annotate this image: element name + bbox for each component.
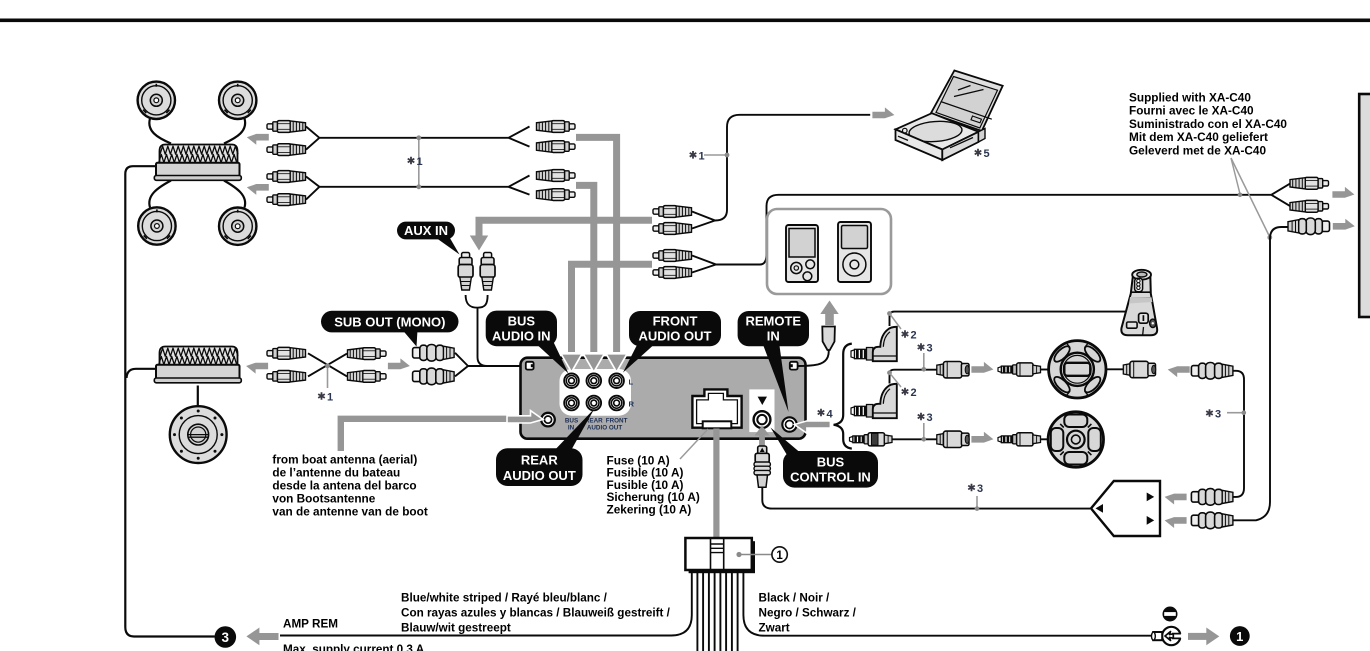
*3 tick + label (right vertical) — [1227, 412, 1243, 414]
svg-text:Black / Noir /: Black / Noir / — [759, 592, 831, 605]
cable arrowheads onto jacks — [561, 354, 582, 372]
gray harness cable from unit to connector — [713, 429, 719, 539]
svg-text:AUDIO IN: AUDIO IN — [492, 328, 551, 343]
screw square left — [526, 362, 534, 370]
wire amp2 to left trunk — [127, 369, 159, 378]
blue/white striped wire text — [401, 592, 671, 635]
cable AUX IN (from upper right pair) — [479, 220, 652, 236]
wire from right-angle plug 1 to pod — [890, 312, 1129, 326]
svg-text:Suministrado con el XA-C40: Suministrado con el XA-C40 — [1129, 117, 1287, 131]
fuse slot — [703, 421, 732, 428]
AUX plug wires converging to unit — [466, 295, 520, 366]
svg-text:IN: IN — [767, 329, 780, 344]
speaker rear-right — [219, 208, 256, 245]
label BUS AUDIO IN — [486, 311, 557, 347]
tail FRONT AUDIO OUT — [623, 341, 658, 373]
gray arrow into amp1 (upper) — [247, 134, 269, 145]
RCA plug pair right ends (pointing right) lower — [537, 170, 576, 182]
svg-text:3: 3 — [927, 343, 933, 355]
tail AUX IN — [434, 236, 460, 255]
top rule bar — [0, 19, 1370, 23]
gray arrow into amp1 (lower) — [247, 184, 269, 195]
wire speaker BR to amp — [224, 181, 245, 208]
portable DVD player — [896, 71, 1003, 161]
pointer lines from text — [1231, 158, 1240, 194]
right edge of base under lid — [979, 129, 986, 143]
curly brace — [834, 344, 852, 449]
AMP REM arrow + circled 3 — [215, 626, 237, 648]
svg-text:BUS: BUS — [817, 455, 845, 470]
lid — [931, 71, 1003, 132]
svg-text:2: 2 — [911, 387, 917, 399]
svg-text:FRONT: FRONT — [606, 418, 628, 425]
chain1: coupler / arrow / plug / commander — [937, 362, 969, 378]
label REMOTE IN — [738, 311, 809, 346]
ring terminal — [1152, 627, 1183, 645]
svg-text:Zekering (10 A): Zekering (10 A) — [607, 502, 692, 516]
svg-text:4: 4 — [827, 408, 834, 420]
svg-text:von Bootsantenne: von Bootsantenne — [272, 492, 375, 506]
*3 tick + label (chain1) — [923, 353, 925, 368]
cable FRONT AUDIO OUT (from upper cord pair) — [576, 137, 617, 352]
svg-text:3: 3 — [1215, 409, 1221, 421]
pod body — [1121, 270, 1157, 335]
svg-text:REAR: REAR — [521, 452, 558, 467]
chain1 right: wire / coupler / arrow / plug / wire down — [1106, 368, 1123, 370]
fuse text — [607, 454, 700, 517]
rotary commander 1 — [1049, 341, 1106, 398]
svg-text:L: L — [629, 377, 634, 386]
*2 pointer + label (plug2) — [890, 373, 902, 387]
fuse pointer line — [680, 429, 708, 459]
*1 tick on DVD wire — [704, 154, 726, 156]
svg-text:from boat antenna (aerial): from boat antenna (aerial) — [272, 453, 417, 467]
jack BUS IN L — [564, 373, 579, 388]
rotary commander 2 — [1048, 412, 1103, 467]
*4 arrow into remote jack — [806, 421, 830, 428]
svg-text:Mit dem XA-C40 geliefert: Mit dem XA-C40 geliefert — [1129, 130, 1268, 144]
straight mini plug (chain2) — [850, 433, 893, 446]
antenna jack — [541, 413, 555, 427]
speaker rear-left — [138, 207, 175, 244]
*2 pointer + label (plug1) — [890, 314, 902, 330]
svg-text:3: 3 — [977, 483, 983, 495]
svg-text:R: R — [629, 400, 635, 409]
right-angle mini plug 2 — [851, 384, 897, 418]
tail REMOTE IN — [762, 342, 789, 412]
tail BUS AUDIO IN — [533, 341, 569, 374]
svg-text:BUS: BUS — [508, 313, 536, 328]
media box — [767, 209, 891, 294]
SUB OUT plug wires — [455, 353, 520, 377]
boat antenna text — [272, 453, 427, 519]
label AUX IN — [397, 222, 455, 240]
amplifier 1 body — [156, 163, 240, 177]
gray arrow toward sub plugs — [388, 358, 410, 369]
circled 1 pointer — [736, 552, 741, 557]
*3 tick + label (chain2) — [923, 423, 925, 438]
base top — [896, 113, 979, 149]
minus symbol — [1163, 607, 1178, 622]
black wire text — [759, 592, 857, 635]
antenna cable gray with white-outlined arrow — [341, 419, 530, 451]
*1 tick on long cords — [418, 136, 420, 189]
*1 label (sub cord) — [318, 392, 325, 400]
arrows into right box — [1332, 187, 1354, 198]
wire amp1 left down to AMP REM row — [125, 166, 214, 636]
svg-text:FRONT: FRONT — [653, 314, 698, 329]
*1 tick at crossing — [327, 366, 329, 388]
svg-text:de l’antenne du bateau: de l’antenne du bateau — [272, 466, 400, 480]
white box + bus control connector — [749, 389, 774, 432]
gray arrow toward DVD player — [872, 107, 894, 118]
svg-text:1: 1 — [1236, 629, 1243, 644]
AUX IN plugs (vertical, pointing up) — [458, 253, 473, 291]
front speaker cord wires (long, *1) — [306, 127, 530, 150]
svg-text:Zwart: Zwart — [759, 622, 790, 635]
tail SUB OUT — [403, 330, 418, 347]
svg-text:3: 3 — [222, 630, 230, 645]
speaker front-left — [138, 82, 175, 119]
BUS cable wire to splitter — [762, 487, 1090, 508]
media player 1 — [786, 225, 818, 282]
svg-text:Negro / Schwarz /: Negro / Schwarz / — [759, 607, 857, 620]
jack BUS IN R — [564, 396, 579, 411]
cable REAR AUDIO OUT (from lower cord pair) — [576, 185, 594, 352]
svg-text:AUDIO OUT: AUDIO OUT — [587, 425, 622, 432]
base front band — [896, 129, 943, 160]
arrowhead down onto AUX plugs — [470, 236, 488, 251]
big BUS connector top right + wire down — [1228, 227, 1288, 520]
harness socket on unit — [692, 389, 741, 427]
speaker front-right — [219, 82, 256, 119]
label FRONT AUDIO OUT — [629, 311, 721, 346]
gray arrow into amp2 — [246, 363, 268, 374]
wire amp2 to subwoofer — [197, 386, 199, 411]
dock connector wire to unit — [799, 349, 829, 367]
svg-text:5: 5 — [984, 148, 990, 160]
pair of RCA plugs for AUX cable (pointing left) + wires to DVD player — [692, 115, 870, 229]
svg-text:1: 1 — [327, 392, 333, 404]
svg-text:Blue/white striped / Rayé bleu: Blue/white striped / Rayé bleu/blanc / — [401, 592, 608, 605]
pair of RCA plugs for BUS AUDIO cable (pointing left) + wire right — [692, 195, 1271, 273]
svg-text:SUB OUT (MONO): SUB OUT (MONO) — [334, 315, 445, 330]
disc — [908, 120, 962, 144]
svg-text:Supplied with XA-C40: Supplied with XA-C40 — [1129, 91, 1251, 105]
RCA plug pair right ends (pointing right) upper — [537, 121, 576, 133]
remote in jack — [782, 417, 796, 431]
arrow + circled dark 1 — [1188, 633, 1207, 640]
RCA pair split at top right — [1271, 183, 1290, 206]
label BUS CONTROL IN — [783, 451, 878, 488]
svg-text:3: 3 — [927, 412, 933, 424]
amplifier 1 heatsink fins — [160, 144, 238, 163]
*1 label (top cords) — [408, 157, 415, 165]
svg-text:CONTROL IN: CONTROL IN — [790, 470, 871, 485]
harness fan wires — [280, 569, 692, 636]
svg-text:REMOTE: REMOTE — [745, 314, 801, 329]
tail BUS CONTROL IN — [771, 428, 804, 456]
media player 2 (click wheel) — [838, 222, 871, 282]
RCA plug pair to amp1 upper — [267, 121, 306, 133]
RCA pair into amp2 (pointing left) — [267, 347, 306, 359]
label REAR AUDIO OUT — [496, 448, 583, 486]
right-angle mini plug 1 — [851, 327, 897, 361]
svg-text:Max. supply current 0.3 A: Max. supply current 0.3 A — [283, 643, 425, 651]
wire plug2 to chain1 — [890, 370, 937, 384]
svg-text:1: 1 — [417, 156, 423, 168]
label SUB OUT (MONO) — [321, 311, 459, 333]
crossed sub cord wires — [308, 353, 347, 376]
wire speaker BL to amp — [149, 181, 171, 208]
svg-text:AUDIO OUT: AUDIO OUT — [639, 329, 712, 344]
*5 label — [975, 149, 982, 157]
svg-text:desde la antena del barco: desde la antena del barco — [272, 479, 416, 493]
RCA plug pair to amp1 lower — [267, 171, 306, 183]
svg-text:AMP REM: AMP REM — [283, 618, 338, 631]
jack FRONT OUT R — [609, 396, 624, 411]
svg-text:Fourni avec le XA-C40: Fourni avec le XA-C40 — [1129, 104, 1254, 118]
amplifier 2 body — [156, 365, 240, 380]
chain2: coupler / arrow / plug / commander2 — [937, 431, 969, 447]
RCA pair pointing right (sub cord) — [348, 348, 387, 360]
dock connector plug — [822, 327, 835, 351]
BUS cable plug below unit — [754, 446, 770, 487]
amplifier 2 heatsink fins — [160, 346, 238, 365]
svg-text:Con rayas azules y blancas / B: Con rayas azules y blancas / Blauweiß ge… — [401, 607, 671, 620]
white jack panel — [560, 369, 632, 416]
svg-text:van de antenne van de boot: van de antenne van de boot — [272, 505, 427, 519]
wire speaker TR to amp — [224, 119, 245, 144]
gray up-arrow into media box — [825, 313, 834, 325]
svg-text:1: 1 — [776, 550, 783, 562]
svg-text:Blauw/wit gestreept: Blauw/wit gestreept — [401, 622, 511, 635]
splitter plugs + arrows — [1165, 494, 1187, 505]
front slot — [950, 138, 973, 148]
svg-text:AUX IN: AUX IN — [404, 223, 448, 238]
hinge pin — [903, 128, 908, 133]
screw square right — [790, 362, 798, 370]
*3 tick + label (bus wire) — [976, 496, 978, 508]
tail REAR AUDIO OUT — [551, 409, 595, 455]
svg-text:AUDIO OUT: AUDIO OUT — [503, 468, 576, 483]
gray up-arrow into bus control connector — [759, 432, 765, 450]
*4 label — [818, 409, 825, 417]
svg-text:1: 1 — [699, 150, 705, 162]
cable BUS AUDIO IN (from lower right pair) — [572, 264, 653, 352]
jack FRONT OUT L — [609, 373, 624, 388]
svg-text:Geleverd met de XA-C40: Geleverd met de XA-C40 — [1129, 143, 1266, 157]
connector 1 (harness plug) — [689, 541, 755, 573]
subwoofer — [170, 406, 227, 463]
jack REAR OUT R — [587, 396, 602, 411]
SUB OUT big plugs — [413, 345, 455, 362]
jack REAR OUT L — [587, 373, 602, 388]
svg-text:2: 2 — [911, 330, 917, 342]
svg-text:BUS: BUS — [565, 418, 578, 425]
wire speaker TL to amp — [149, 119, 171, 144]
head unit body — [521, 358, 806, 439]
